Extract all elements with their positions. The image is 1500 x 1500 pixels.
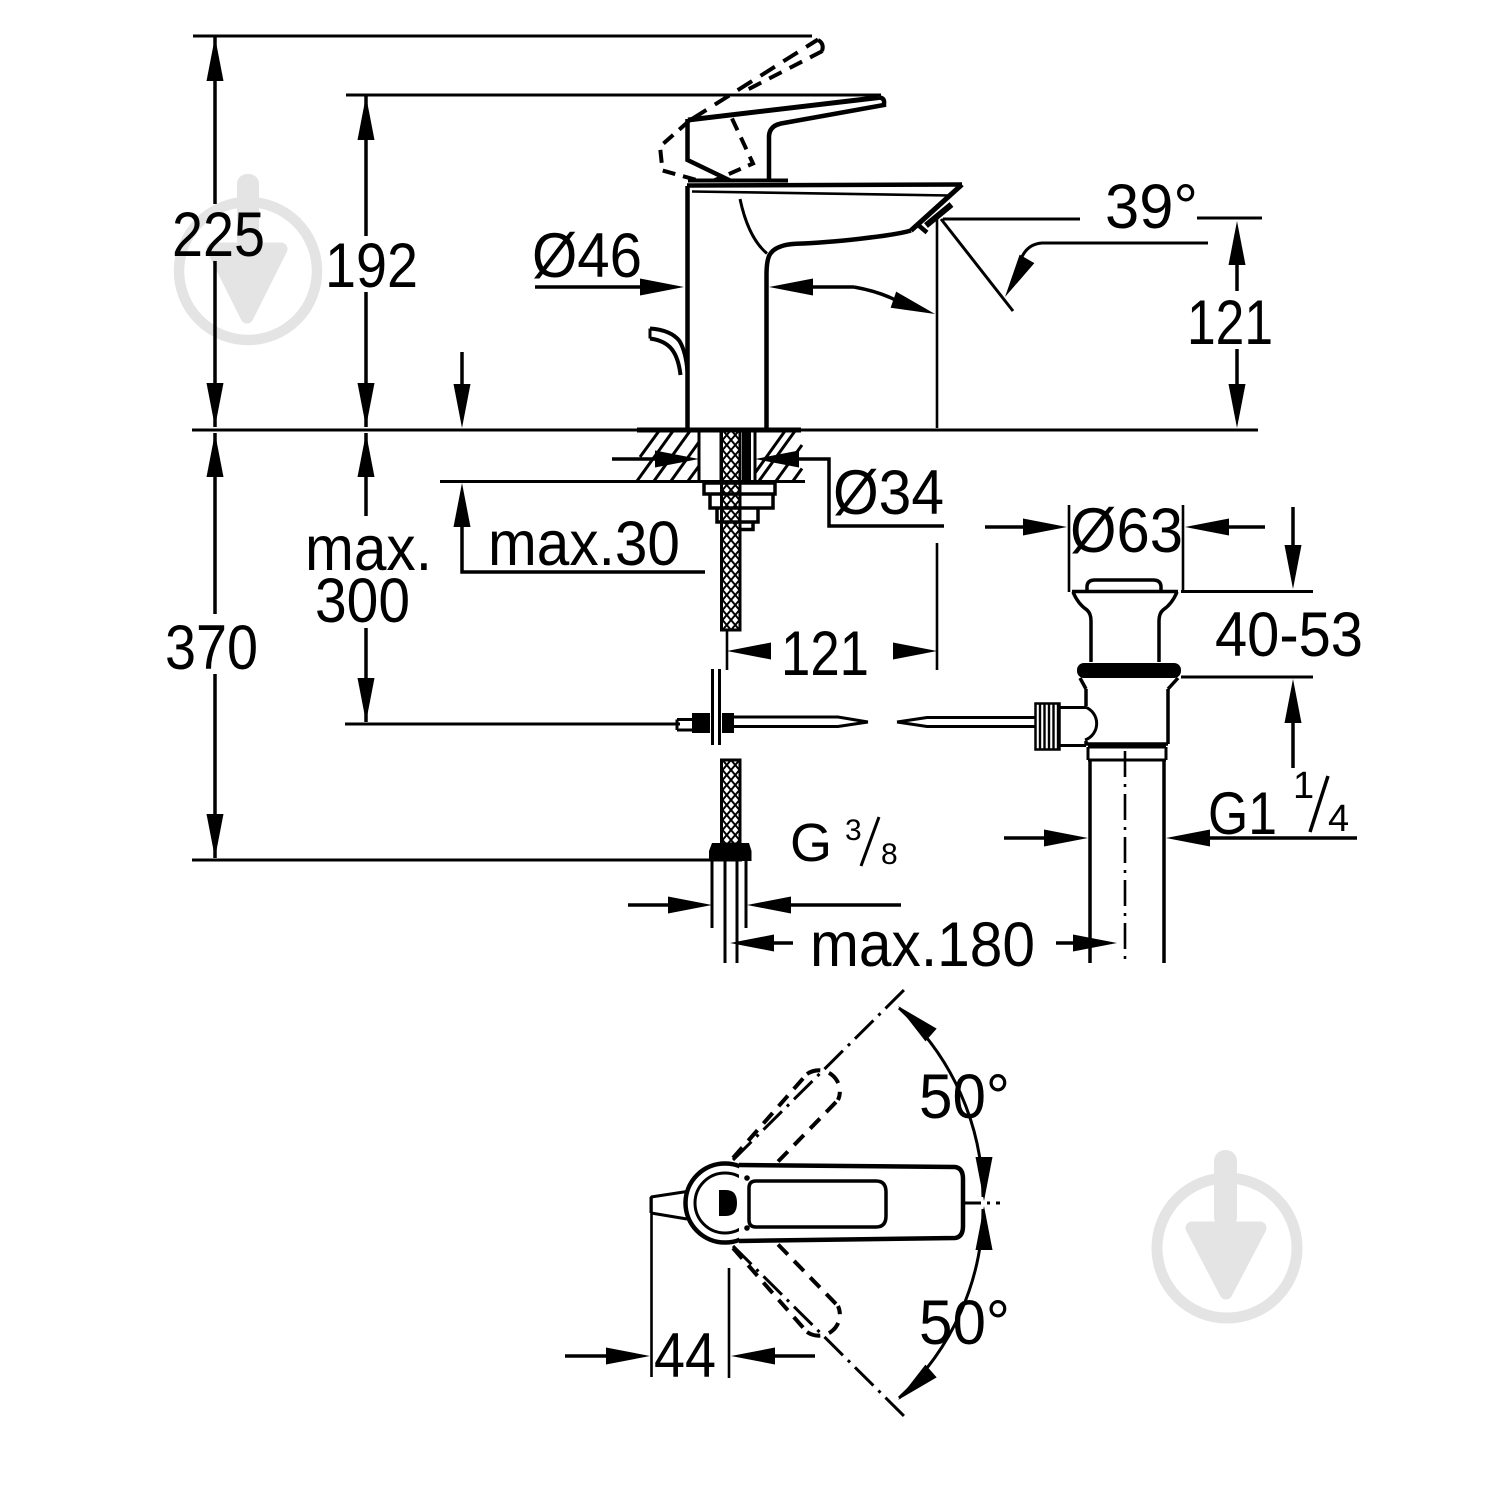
spout outlet vertical extension line	[936, 219, 939, 428]
cap detail dots	[744, 1175, 750, 1181]
lever top surface outline	[749, 1181, 886, 1227]
dimension G1 1/4	[1004, 836, 1045, 840]
svg-text:50°: 50°	[919, 1288, 1010, 1358]
dimension 40-53	[1181, 592, 1313, 678]
handle lever (solid)	[688, 98, 879, 121]
watermark logo bottom-right	[1157, 1150, 1297, 1318]
horizontal pop-up rod left piece	[734, 717, 868, 727]
handle seam line	[688, 179, 788, 183]
svg-text:1: 1	[1293, 765, 1314, 807]
mounting hole walls	[699, 431, 755, 481]
reference line 192 level	[346, 94, 881, 97]
svg-text:121: 121	[781, 619, 869, 689]
svg-text:40-53: 40-53	[1215, 600, 1363, 670]
dimension 121 (right)	[1235, 263, 1239, 384]
pop-up rod in deck	[742, 431, 751, 481]
pop-up rod tee	[713, 669, 720, 745]
aerator	[926, 205, 952, 226]
handle top view: tilt centerline up	[733, 987, 907, 1160]
svg-text:44: 44	[654, 1321, 716, 1391]
horizontal pop-up rod right piece	[897, 718, 1036, 727]
svg-text:8: 8	[881, 838, 898, 871]
50 degree arc lower	[899, 1209, 983, 1398]
knurled adjuster knob	[1036, 704, 1060, 750]
angle leader with arrow	[1021, 243, 1208, 259]
faucet top edge	[687, 185, 962, 186]
dimension max.180	[730, 935, 774, 952]
hose nut G3/8	[709, 843, 752, 861]
svg-text:50°: 50°	[919, 1062, 1010, 1132]
handle cap top view	[686, 1164, 765, 1243]
svg-text:192: 192	[325, 231, 418, 301]
50 degree arc upper	[899, 1008, 983, 1197]
handle top view: horizontal centerline	[963, 1202, 1000, 1205]
spout inner top line	[692, 192, 950, 196]
dimension max.300	[364, 433, 368, 722]
rubber seal ring	[1077, 663, 1181, 678]
svg-text:4: 4	[1328, 798, 1349, 840]
svg-text:max.180: max.180	[810, 910, 1035, 980]
svg-text:Ø46: Ø46	[532, 221, 642, 291]
dimension max.30	[460, 352, 464, 384]
handle top view: tilt centerline down	[733, 1246, 907, 1419]
knob ball joint in body	[1085, 707, 1097, 740]
thread groove	[1088, 747, 1166, 760]
svg-text:300: 300	[315, 566, 410, 636]
braided supply hose lower	[722, 760, 741, 844]
dimension 44	[565, 1354, 607, 1358]
pop-up pull rod knob	[650, 329, 688, 373]
svg-text:Ø63: Ø63	[1070, 496, 1183, 566]
lever top view body	[739, 1165, 963, 1241]
svg-text:225: 225	[172, 200, 265, 270]
svg-text:3: 3	[845, 814, 862, 847]
dimension 192	[364, 96, 368, 427]
faucet body left edge	[685, 186, 690, 430]
svg-text:39°: 39°	[1105, 172, 1198, 242]
spout neck curve	[740, 199, 767, 254]
reference line top (225 level)	[193, 35, 812, 38]
rod clevis	[692, 713, 710, 733]
deck / counter line	[192, 429, 1258, 432]
dashed handle lowered 50 down	[733, 1228, 840, 1336]
pull-rod level extension line	[345, 723, 680, 726]
spout underside	[767, 231, 912, 431]
dashed handle raised 50 up	[733, 1070, 840, 1178]
watermark logo top-left	[179, 174, 317, 340]
counter hatching right	[755, 431, 802, 481]
cap detail mark	[719, 1190, 737, 1216]
svg-text:370: 370	[165, 613, 258, 683]
tailpipe centerline	[1124, 751, 1127, 965]
svg-text:G: G	[790, 813, 832, 873]
spout end face	[911, 185, 962, 231]
handle cap left edge	[688, 119, 731, 181]
bottom reference line (370 level)	[192, 859, 742, 862]
curved leader to spout axis	[854, 287, 901, 303]
dimension Ø34	[612, 457, 656, 461]
svg-text:G1: G1	[1208, 780, 1277, 847]
waste body below seal	[1080, 678, 1178, 744]
dimension G3/8	[628, 903, 669, 907]
counter hatching left	[637, 431, 699, 481]
counter underside line	[440, 480, 805, 483]
braided supply hose upper	[722, 431, 741, 630]
knob stem	[1060, 708, 1087, 746]
svg-text:max.30: max.30	[488, 509, 680, 579]
svg-text:121: 121	[1187, 288, 1273, 358]
dimension 121 (below deck)	[726, 630, 729, 670]
water stream line at 39 deg	[941, 219, 1013, 311]
dimension 225	[213, 37, 217, 427]
mounting locknut	[704, 483, 775, 530]
handle front tab	[651, 1192, 687, 1220]
waste tailpipe	[1090, 760, 1164, 963]
handle dashed (raised position)	[692, 40, 818, 120]
svg-text:Ø34: Ø34	[833, 458, 944, 528]
waste flare body	[1072, 590, 1178, 594]
dimension 370	[213, 433, 217, 858]
pop-up waste pushbutton	[1087, 580, 1161, 591]
supply tube	[712, 861, 746, 963]
